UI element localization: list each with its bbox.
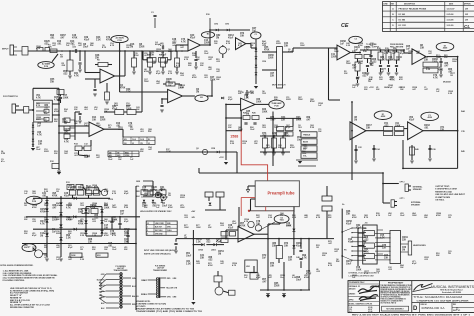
svg-text:DESCRIPTION: DESCRIPTION [404,4,416,6]
svg-text:2.2K: 2.2K [126,91,131,93]
svg-text:2.2K: 2.2K [230,143,235,145]
svg-text:470K: 470K [68,218,73,221]
svg-text:220R: 220R [274,285,280,287]
svg-text:.047: .047 [64,152,68,155]
svg-text:2.2K: 2.2K [448,93,453,95]
svg-text:470K: 470K [92,204,97,207]
svg-text:4.7K: 4.7K [37,133,42,136]
svg-text:2.2K: 2.2K [426,69,431,71]
svg-text:GRN: GRN [136,181,141,183]
svg-text:2-25-98: 2-25-98 [447,14,455,16]
svg-text:TITLE: SCHEMATIC DIAGRAM: TITLE: SCHEMATIC DIAGRAM [413,295,463,299]
svg-text:470K: 470K [192,76,197,79]
svg-text:1M: 1M [450,75,453,77]
svg-text:22K: 22K [24,219,28,221]
svg-text:220R: 220R [268,57,274,59]
svg-text:2.2K: 2.2K [384,53,389,55]
svg-text:.022: .022 [44,43,49,45]
svg-text:4.7K: 4.7K [36,96,41,99]
svg-text:.022: .022 [316,271,320,273]
svg-text:10K: 10K [400,89,404,91]
svg-text:.022: .022 [32,193,36,195]
svg-text:22K: 22K [402,239,407,241]
svg-text:2.2K: 2.2K [310,127,315,129]
svg-text:BLK HOT: BLK HOT [155,227,162,229]
svg-text:1M: 1M [80,249,83,251]
svg-text:22K: 22K [44,247,48,249]
svg-text:10K: 10K [92,119,97,121]
svg-text:100K: 100K [156,51,161,53]
svg-text:100K: 100K [184,227,189,229]
svg-text:10K: 10K [400,267,404,269]
svg-text:220K: 220K [166,151,171,153]
svg-text:BAL GN: BAL GN [132,295,139,298]
svg-text:1uF: 1uF [262,257,267,259]
svg-text:10K: 10K [50,81,55,83]
svg-text:10uF: 10uF [162,205,168,207]
svg-text:1588: 1588 [230,135,238,139]
svg-text:100K: 100K [180,207,185,209]
svg-text:SPEAKER: SPEAKER [411,203,420,206]
svg-text:47pF: 47pF [161,53,167,56]
svg-text:TRANSFORMER: TRANSFORMER [153,269,168,272]
svg-text:33K: 33K [54,153,58,155]
svg-text:470K: 470K [310,100,315,103]
svg-text:100K: 100K [296,119,302,121]
svg-text:2.2K: 2.2K [114,105,119,107]
svg-text:4.7K: 4.7K [40,222,45,225]
svg-text:4.7K: 4.7K [226,42,231,45]
svg-text:4.7K: 4.7K [364,216,369,219]
svg-text:MUSICAL INSTRUMENTS: MUSICAL INSTRUMENTS [431,285,474,289]
svg-text:TDA: TDA [280,219,285,222]
svg-text:.047: .047 [262,280,267,283]
svg-text:22K: 22K [270,75,275,77]
svg-text:470K: 470K [96,124,101,127]
svg-text:47pF: 47pF [216,240,222,243]
svg-text:2.2K: 2.2K [268,217,273,219]
svg-text:2.2K: 2.2K [180,87,185,89]
svg-text:.047: .047 [96,156,100,159]
svg-text:2: 2 [147,230,148,232]
svg-text:22K: 22K [164,63,168,65]
svg-text:100K: 100K [334,51,339,53]
svg-text:4.7K: 4.7K [168,72,173,75]
svg-text:.022: .022 [92,221,96,223]
svg-text:2.2K: 2.2K [124,207,129,209]
svg-text:.001: .001 [50,37,55,39]
svg-text:4.7K: 4.7K [328,264,333,267]
svg-text:4.7K: 4.7K [244,220,249,223]
svg-text:10K: 10K [56,219,60,221]
svg-text:10uF: 10uF [346,263,352,265]
svg-text:EC 986: EC 986 [399,20,407,22]
svg-text:470K: 470K [358,62,363,65]
svg-text:3-03-98: 3-03-98 [447,20,455,22]
svg-text:.022: .022 [216,61,220,63]
svg-text:10K: 10K [318,131,322,133]
svg-text:22K: 22K [382,247,387,249]
svg-text:INPUT: INPUT [2,48,9,50]
svg-text:RTN: RTN [1,153,6,155]
svg-text:47K: 47K [399,78,403,81]
svg-text:.047: .047 [52,44,56,47]
svg-text:10K: 10K [126,47,130,49]
svg-text:01-06: 01-06 [368,311,372,313]
svg-text:22K: 22K [86,189,91,191]
svg-text:10uF: 10uF [83,46,89,48]
svg-text:4.7K: 4.7K [380,58,385,61]
svg-text:.022: .022 [250,93,254,95]
svg-text:10K: 10K [284,245,289,247]
svg-text:470K: 470K [106,38,112,41]
svg-text:.022: .022 [362,75,367,77]
svg-text:22K: 22K [188,65,192,67]
svg-text:RESISTIVE LOAD: RESISTIVE LOAD [435,190,452,193]
svg-text:SPEAKER: SPEAKER [413,188,422,191]
svg-text:100K: 100K [452,61,457,63]
svg-text:470K: 470K [44,232,49,235]
svg-text:1M: 1M [416,53,419,55]
svg-text:470K: 470K [358,44,363,47]
svg-text:4.7K: 4.7K [376,214,381,217]
svg-text:100K: 100K [104,207,110,209]
svg-text:470K: 470K [160,188,166,191]
svg-text:1M: 1M [216,37,219,39]
svg-text:470K: 470K [436,214,441,217]
svg-text:33K: 33K [68,233,72,235]
svg-text:220R: 220R [56,233,61,235]
svg-text:470K: 470K [72,36,78,39]
svg-text:220R: 220R [180,197,185,199]
svg-text:10K: 10K [379,79,383,81]
svg-text:1M: 1M [24,205,27,207]
svg-text:0059564-000 /1A: 0059564-000 /1A [422,306,445,310]
svg-text:22K: 22K [200,65,204,67]
svg-text:10K: 10K [32,249,36,251]
svg-text:10K: 10K [196,59,200,61]
svg-text:470K: 470K [40,210,46,213]
svg-text:WITHOUT THE WRITTEN PERMISSION: WITHOUT THE WRITTEN PERMISSION [380,293,410,295]
svg-text:100K: 100K [256,101,262,103]
svg-text:EARTH LIVE GND GRN (BLDG): EARTH LIVE GND GRN (BLDG) [144,252,171,255]
svg-text:2.2K: 2.2K [92,235,97,237]
svg-text:33K: 33K [272,245,277,247]
svg-text:470K: 470K [208,264,213,267]
svg-text:E.C.: E.C. [349,311,353,313]
svg-text:1M: 1M [112,221,115,223]
svg-text:4.7K: 4.7K [36,47,41,50]
svg-text:22K: 22K [281,119,286,121]
svg-text:PROPRIETARY: PROPRIETARY [388,282,404,285]
svg-text:33K: 33K [74,123,78,125]
svg-text:220R: 220R [204,42,210,44]
svg-text:470K: 470K [32,206,37,209]
svg-text:100K: 100K [346,63,351,65]
svg-text:220R: 220R [94,189,100,191]
svg-text:10uF: 10uF [297,139,303,141]
svg-text:1M: 1M [448,217,451,219]
svg-text:1M: 1M [218,253,221,255]
svg-text:470K: 470K [104,234,109,237]
svg-text:EC 962: EC 962 [399,14,407,16]
svg-text:47pF: 47pF [296,244,302,247]
svg-text:OUT NOTICE. REV D: OUT NOTICE. REV D [380,302,397,304]
svg-text:4.7K: 4.7K [390,78,395,81]
svg-text:CR10: CR10 [108,199,114,201]
svg-text:4.7K: 4.7K [380,236,385,239]
svg-text:SHT 1/1: SHT 1/1 [453,310,461,312]
svg-text:33K: 33K [366,127,371,129]
svg-text:.022: .022 [303,147,308,149]
svg-text:4.7K: 4.7K [112,234,117,237]
svg-text:1M: 1M [40,235,43,237]
svg-text:1M: 1M [246,113,249,115]
svg-text:REVERB PAN CONNECTED: REVERB PAN CONNECTED [10,306,35,309]
svg-text:33K: 33K [208,227,212,229]
svg-text:33K: 33K [420,47,425,49]
svg-text:.047: .047 [268,276,272,279]
svg-text:470K: 470K [264,48,270,51]
svg-text:10K: 10K [436,57,440,59]
svg-text:4.7K: 4.7K [110,44,115,47]
svg-text:1M: 1M [448,253,451,255]
svg-text:4.7K: 4.7K [64,140,69,143]
svg-text:47pF: 47pF [228,36,234,39]
svg-text:1: 1 [147,227,148,229]
svg-text:TIP: TIP [117,152,119,154]
svg-text:.047: .047 [216,70,220,73]
svg-text:TRANSFORMER (T1C) AND (T1D) WI: TRANSFORMER (T1C) AND (T1D) WIRE CONNECT… [136,310,203,313]
svg-text:.001: .001 [57,43,62,45]
svg-text:220R: 220R [276,43,281,45]
svg-text:2.2K: 2.2K [292,217,297,219]
svg-text:2.2K: 2.2K [96,39,101,41]
svg-text:10K: 10K [95,57,100,59]
svg-text:33K: 33K [92,249,96,251]
svg-text:22K: 22K [54,121,58,123]
svg-text:PCB: PCB [44,66,49,68]
svg-text:22K: 22K [328,217,332,219]
svg-text:.047: .047 [328,242,332,245]
svg-text:.047: .047 [208,58,212,61]
svg-text:220R: 220R [139,46,145,48]
svg-text:1M: 1M [56,191,59,193]
svg-text:470K: 470K [54,110,59,113]
svg-text:470K: 470K [352,216,357,219]
svg-text:100K: 100K [298,99,303,101]
svg-text:10K: 10K [142,189,147,191]
svg-text:22K: 22K [278,147,282,149]
svg-text:22K: 22K [336,261,340,263]
svg-text:220R: 220R [126,105,131,107]
svg-text:10K: 10K [104,227,109,229]
svg-text:.022: .022 [206,241,211,243]
svg-text:4.7K: 4.7K [112,192,117,195]
svg-text:220R: 220R [126,108,132,110]
svg-text:.022: .022 [424,259,428,261]
svg-text:TOLERANCE ITALY:: TOLERANCE ITALY: [349,281,365,284]
svg-text:100K: 100K [196,227,201,229]
svg-text:33K: 33K [38,143,43,145]
svg-text:1uF: 1uF [340,43,345,45]
svg-text:22K: 22K [148,131,152,133]
svg-text:33K: 33K [70,189,75,191]
svg-text:1M: 1M [64,111,67,113]
svg-text:4.7K: 4.7K [238,44,243,47]
svg-text:.047: .047 [172,44,176,47]
svg-text:JW: JW [465,9,468,11]
svg-text:22K: 22K [288,259,293,261]
svg-text:Scottsdale, AZ 85258: Scottsdale, AZ 85258 [442,291,461,294]
svg-text:220R: 220R [286,99,291,101]
svg-text:.022: .022 [208,259,213,261]
svg-text:100K: 100K [395,125,401,127]
svg-text:100K: 100K [286,225,292,227]
svg-text:100K: 100K [412,215,417,217]
svg-text:10K: 10K [144,195,148,197]
svg-text:EC 1131: EC 1131 [399,25,408,27]
svg-text:4.7K: 4.7K [232,264,237,267]
svg-text:47pF: 47pF [346,222,352,225]
svg-text:220R: 220R [100,119,106,121]
svg-text:2.2K: 2.2K [244,97,249,99]
svg-text:.022: .022 [80,205,84,207]
svg-text:33K: 33K [228,127,232,129]
svg-text:22K: 22K [151,189,156,191]
svg-text:10K: 10K [104,111,108,113]
svg-text:33K: 33K [200,257,205,259]
svg-text:22K: 22K [130,129,134,131]
svg-text:2.2K: 2.2K [346,45,351,47]
svg-text:10K: 10K [150,54,155,56]
svg-text:OPT 1: OPT 1 [400,198,405,200]
svg-text:1M: 1M [316,247,319,249]
svg-text:MUTE SWITCH: MUTE SWITCH [272,85,286,87]
svg-text:PCB: PCB [274,105,279,107]
svg-text:.022: .022 [384,125,389,127]
svg-text:100K: 100K [210,79,216,81]
svg-text:2.2K: 2.2K [186,263,191,265]
svg-text:47pF: 47pF [64,194,70,197]
svg-text:10K: 10K [240,35,245,37]
svg-text:100K: 100K [262,111,268,113]
svg-text:.022: .022 [242,143,246,145]
svg-text:1uF: 1uF [37,125,42,127]
svg-text:4.7K: 4.7K [74,74,79,77]
svg-text:22K: 22K [168,85,172,87]
svg-text:CL: CL [464,24,470,29]
svg-text:22K: 22K [274,99,278,101]
svg-text:22K: 22K [90,45,94,47]
svg-text:1M: 1M [368,81,371,83]
svg-text:10K: 10K [104,249,108,251]
svg-text:2.2K: 2.2K [66,237,71,239]
svg-text:.047: .047 [334,250,338,253]
svg-text:220R: 220R [331,56,337,58]
svg-text:22K: 22K [376,89,380,91]
svg-text:CR20: CR20 [198,250,204,252]
svg-text:.047: .047 [306,118,311,121]
svg-text:.022: .022 [220,225,224,227]
svg-text:220R: 220R [124,235,129,237]
svg-text:470K: 470K [290,146,295,149]
svg-text:OPT 2: OPT 2 [400,182,405,184]
svg-text:TRANSFORMER: TRANSFORMER [114,269,129,272]
svg-text:22K: 22K [24,247,28,249]
svg-text:33K: 33K [44,113,48,115]
svg-text:2.2K: 2.2K [284,135,289,137]
svg-text:10K: 10K [256,223,261,225]
svg-text:+15V: +15V [369,87,374,89]
svg-text:.022: .022 [68,205,72,207]
svg-text:470K: 470K [388,58,394,61]
svg-text:.022: .022 [196,263,200,265]
svg-text:33K: 33K [24,233,28,235]
svg-text:1M: 1M [64,123,67,125]
svg-text:.047: .047 [304,216,308,219]
svg-text:HEADPHONES: HEADPHONES [413,244,426,247]
svg-text:BASS: BASS [303,141,309,144]
svg-text:220R: 220R [168,51,173,53]
svg-text:33K: 33K [424,59,429,61]
svg-text:4.7K: 4.7K [184,58,189,61]
svg-text:2.2K: 2.2K [80,235,85,237]
svg-text:1M: 1M [356,79,359,81]
svg-text:JW: JW [465,14,468,16]
svg-text:470K: 470K [168,206,173,209]
svg-text:.022: .022 [184,217,188,219]
svg-text:4.7K: 4.7K [36,104,41,107]
svg-text:22K: 22K [44,219,48,221]
svg-text:SW1: SW1 [97,255,101,257]
svg-text:.022: .022 [44,107,49,109]
svg-text:.047: .047 [70,42,75,45]
svg-text:33K: 33K [344,73,348,75]
svg-text:LED1: LED1 [211,250,217,252]
svg-text:22K: 22K [322,255,326,257]
svg-text:4.7K: 4.7K [364,272,369,275]
svg-text:8 OHM SPKR & 8 OHM: 8 OHM SPKR & 8 OHM [435,189,457,191]
svg-text:.047: .047 [220,262,224,265]
svg-text:LED4 LIGHTED FOR STANDBY ONLY: LED4 LIGHTED FOR STANDBY ONLY [140,210,172,213]
svg-text:.047: .047 [156,82,160,85]
svg-text:CHAMPION 110 GUITAR AMPLIFIER: CHAMPION 110 GUITAR AMPLIFIER [417,300,470,303]
svg-text:470K: 470K [304,276,309,279]
svg-text:4.7K: 4.7K [176,64,181,67]
svg-text:3-01-99: 3-01-99 [447,25,455,27]
svg-text:1uF: 1uF [354,49,359,51]
svg-text:47pF: 47pF [190,36,196,39]
svg-text:.047: .047 [208,68,212,71]
svg-text:2.2K: 2.2K [80,259,85,261]
svg-text:B+: B+ [342,204,344,206]
svg-text:22K: 22K [364,89,368,91]
svg-text:470K: 470K [120,86,126,89]
svg-text:25K: 25K [62,65,66,67]
svg-text:OPEN: OPEN [125,155,129,157]
svg-text:47pF: 47pF [228,226,234,229]
svg-text:10uF: 10uF [296,279,302,281]
svg-text:10K: 10K [216,79,220,81]
svg-text:.047: .047 [64,130,69,133]
svg-text:2.2K: 2.2K [438,69,443,71]
svg-text:+15V: +15V [219,157,224,159]
svg-text:22K: 22K [136,109,140,111]
svg-text:J10: J10 [365,223,368,225]
svg-text:4.7K: 4.7K [316,216,321,219]
svg-text:47pF: 47pF [356,226,362,229]
